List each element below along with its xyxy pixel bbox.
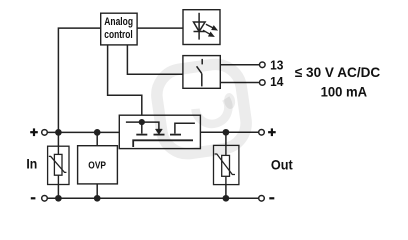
wire: In + rail: [47, 131, 119, 133]
MOSFET pair symbol: [126, 119, 195, 147]
junction dot + rail / varistor: [55, 129, 62, 136]
middle bar: [154, 134, 165, 136]
wire: contact to terminal 14: [220, 82, 259, 84]
wire: OVP bottom lead: [96, 184, 98, 198]
gate line: [126, 122, 159, 129]
svg-text:Analog: Analog: [104, 16, 133, 28]
LED D1: [194, 13, 218, 40]
wire: Analog control to MOSFET gate: [108, 45, 142, 122]
svg-text:≤ 30 V AC/DC: ≤ 30 V AC/DC: [295, 64, 380, 80]
svg-text:13: 13: [270, 57, 283, 72]
watermark logo: [153, 61, 249, 157]
svg-text:Out: Out: [271, 157, 293, 173]
svg-text:In: In: [26, 157, 37, 172]
junction dot output - rail: [223, 195, 230, 202]
svg-text:14: 14: [270, 74, 284, 89]
terminal circle 13: [260, 62, 266, 68]
box: relay contact K1: [183, 56, 220, 89]
wire: Out varistor bottom lead: [225, 185, 227, 199]
svg-text:100 mA: 100 mA: [321, 84, 368, 99]
svg-text:control: control: [104, 29, 132, 41]
junction dot output + rail: [223, 129, 230, 136]
wire: Analog control to relay contact: [127, 45, 182, 74]
box: LED indicator: [183, 10, 220, 45]
junction dot + rail / OVP: [94, 129, 101, 136]
left gate bar: [136, 134, 147, 136]
wire: Analog control to LED box: [137, 27, 183, 29]
junction dot - rail / varistor: [55, 195, 62, 202]
wire: MOSFET output to Out + terminal: [200, 131, 258, 133]
terminal circle Out +: [259, 130, 265, 136]
right gate bar: [170, 134, 181, 136]
common source line: [133, 140, 193, 147]
wire: Out varistor top lead: [225, 132, 227, 145]
right MOSFET drain: [175, 123, 195, 133]
terminal circle In -: [42, 196, 48, 202]
box: Analog control U1: [101, 13, 137, 45]
gate node dot: [139, 119, 145, 125]
label: In + sign: [30, 128, 38, 136]
wire: bottom - rail: [47, 197, 258, 199]
terminal circle In +: [42, 130, 48, 136]
wire: In varistor bottom lead: [57, 185, 59, 199]
wire: In varistor top lead: [57, 132, 59, 146]
varistor RV1 (input): [48, 146, 69, 184]
box: MOSFET output stage: [119, 115, 200, 148]
box: OVP: [78, 146, 118, 184]
junction dot - rail / OVP: [94, 195, 101, 202]
wire: OVP top lead: [96, 132, 98, 145]
varistor RV2 (output): [214, 145, 239, 184]
wire: + rail to Analog control input: [58, 28, 100, 132]
label: Analog control: [104, 16, 133, 41]
body diode arrow: [155, 129, 162, 134]
terminal circle 14: [260, 80, 266, 86]
label: Out + sign: [268, 128, 276, 136]
wire: contact to terminal 13: [220, 64, 259, 66]
terminal circle Out -: [259, 196, 265, 202]
label: Out - sign: [269, 197, 274, 199]
svg-text:OVP: OVP: [88, 160, 106, 171]
label: In - sign: [31, 197, 36, 199]
contact switch: [197, 59, 203, 87]
gate stem left MOSFET: [141, 122, 143, 134]
